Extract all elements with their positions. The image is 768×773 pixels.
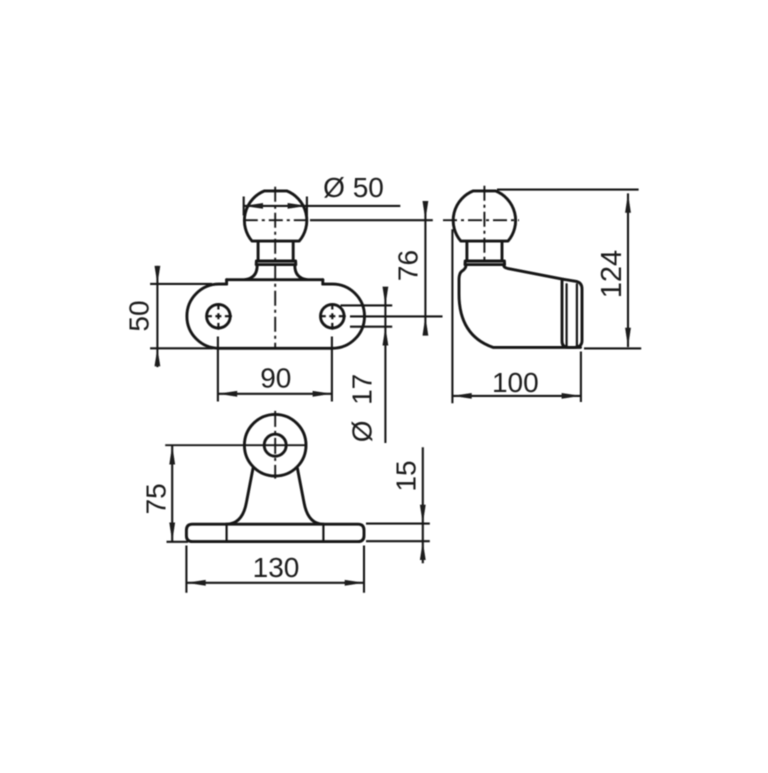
svg-text:90: 90 bbox=[260, 362, 291, 393]
arrow Ø50 right bbox=[288, 203, 307, 209]
dim Ø17: hole tangent extension lines bbox=[341, 305, 393, 326]
arrow 75 bottom (pointing down) bbox=[169, 523, 175, 542]
svg-text:Ø 50: Ø 50 bbox=[323, 172, 384, 203]
svg-text:130: 130 bbox=[253, 552, 300, 583]
dim 100: dimension line bbox=[452, 395, 581, 397]
dim 130: dimension line bbox=[186, 582, 364, 584]
dim Ø17: dimension line bbox=[384, 287, 386, 443]
svg-text:75: 75 bbox=[140, 483, 171, 514]
dim 76: dimension line bbox=[424, 201, 426, 335]
plate step left bbox=[225, 280, 228, 284]
arrow 124 bottom (pointing down) bbox=[625, 328, 631, 347]
neck (front view) bbox=[258, 242, 293, 260]
arrow 15 bottom (outside, pointing up) bbox=[420, 541, 426, 560]
arrow 76 top (outside, pointing down) bbox=[423, 201, 429, 220]
ball (front view, flattened top) bbox=[244, 191, 306, 241]
svg-text:124: 124 bbox=[596, 250, 628, 298]
dim 130: extension lines bbox=[186, 546, 364, 593]
dim 90: dimension line bbox=[218, 393, 332, 395]
dim 124: bottom extension line bbox=[584, 347, 641, 349]
arrow Ø50 left bbox=[244, 203, 263, 209]
inner hole circle (bottom view) bbox=[264, 434, 286, 456]
arrow 124 top (pointing up) bbox=[625, 193, 631, 212]
arrow 76 bottom (outside, pointing up) bbox=[423, 316, 429, 335]
dim Ø50: extension ticks bbox=[244, 197, 307, 216]
flare (front view trumpet) bbox=[245, 265, 306, 280]
centerline horizontal (side ball) bbox=[443, 219, 519, 221]
dim 124: top extension line bbox=[497, 189, 639, 191]
arrow 50 top (outside, pointing down) bbox=[155, 266, 161, 284]
svg-text:50: 50 bbox=[124, 300, 155, 331]
hole left bbox=[207, 304, 231, 328]
dim 90: extension lines bbox=[218, 337, 332, 402]
svg-text:100: 100 bbox=[492, 367, 539, 398]
arrow 90 left bbox=[218, 391, 237, 397]
collar ring (side view) bbox=[465, 261, 505, 265]
dim 100: right extension line bbox=[580, 352, 582, 403]
dim 124: dimension line bbox=[627, 193, 629, 347]
hole left crosshair bbox=[206, 315, 232, 317]
dim 100: left extension line bbox=[451, 229, 453, 403]
trumpet left curve bbox=[226, 468, 253, 524]
bar inner vertical left bbox=[226, 524, 228, 541]
arrow 75 top (pointing up) bbox=[169, 445, 175, 464]
boss circle (bottom view) bbox=[244, 414, 306, 476]
arrow 100 right bbox=[562, 393, 581, 399]
dim 15: dimension line bbox=[422, 447, 424, 563]
neck (side view) bbox=[467, 242, 502, 260]
dim 76: extension line (ball centerline extended right) bbox=[310, 219, 433, 221]
dim Ø17: hole centerline extended right bbox=[350, 315, 443, 317]
arrow 130 left bbox=[186, 580, 205, 586]
arrow 15 top (outside, pointing down) bbox=[420, 505, 426, 524]
centerline horizontal / dim 75 top extension bbox=[165, 444, 307, 446]
dim Ø50: dimension line bbox=[244, 205, 401, 207]
arrow 50 bottom (outside, pointing up) bbox=[155, 348, 161, 366]
svg-text:Ø 17: Ø 17 bbox=[347, 374, 378, 442]
centerline vertical (front view) bbox=[274, 187, 276, 350]
base plate stadium outline bbox=[187, 284, 365, 348]
centerline horizontal through front ball bbox=[244, 219, 310, 221]
dim 75: bottom extension line bbox=[167, 541, 189, 543]
hole right bbox=[321, 304, 345, 328]
centerline vertical (bottom view) bbox=[274, 411, 276, 479]
dim 50: dimension line bbox=[156, 266, 158, 367]
body top edge (side view) bbox=[504, 265, 564, 280]
body outline (side view) bbox=[459, 265, 581, 348]
flange inner line 2 bbox=[576, 284, 578, 347]
bar inner vertical right bbox=[322, 524, 324, 541]
dim 50: extension lines bbox=[150, 284, 213, 348]
arrow Ø17 bottom (outside, pointing up) bbox=[383, 327, 389, 346]
arrow 130 right bbox=[345, 580, 364, 586]
flange inner line 1 bbox=[565, 284, 567, 347]
arrow 90 right bbox=[313, 391, 332, 397]
centerline vertical (side ball) bbox=[483, 186, 485, 262]
base bar bbox=[186, 524, 364, 541]
hole right crosshair bbox=[320, 315, 346, 317]
collar ring (front view) bbox=[256, 261, 296, 265]
dim 15: extension lines bbox=[366, 524, 430, 542]
trumpet right curve bbox=[297, 468, 323, 524]
dim 75: dimension line bbox=[171, 445, 173, 542]
ball (side view) bbox=[453, 191, 515, 241]
plate step right bbox=[321, 280, 324, 284]
arrow Ø17 top (outside, pointing down) bbox=[383, 287, 389, 306]
flange (side view, rounded plate edge-on) bbox=[562, 279, 582, 347]
svg-text:76: 76 bbox=[392, 250, 423, 281]
arrow 100 left bbox=[452, 393, 471, 399]
raised plate top line bbox=[227, 278, 323, 281]
svg-text:15: 15 bbox=[390, 460, 421, 491]
